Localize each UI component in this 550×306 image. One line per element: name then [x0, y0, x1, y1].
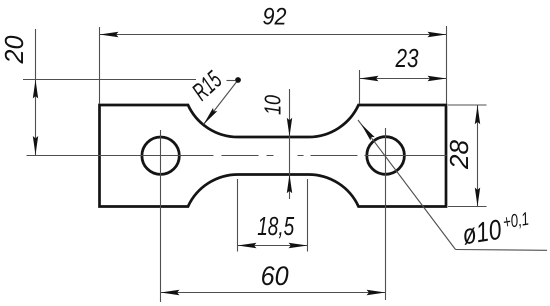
dim 18,5: dimension line — [238, 245, 308, 247]
right hole vertical centerline — [385, 128, 387, 300]
dim 92: arrow left — [100, 32, 119, 37]
svg-text:60: 60 — [261, 261, 289, 291]
svg-text:28: 28 — [444, 139, 474, 170]
dim 28: extension line top right — [448, 104, 487, 106]
dim 92: arrow right — [428, 32, 447, 37]
dim 23: arrow right — [428, 76, 447, 81]
svg-text:ø10: ø10 — [460, 214, 504, 251]
svg-text:92: 92 — [263, 4, 287, 31]
dim 23: arrow left — [360, 76, 379, 81]
horizontal centerline (dash-dot axis through part and holes) — [27, 155, 447, 157]
svg-text:10: 10 — [260, 95, 286, 115]
dim 10 (neck width): upper dimension line — [289, 89, 291, 199]
d10 leader: diagonal through right hole — [358, 120, 456, 250]
dim 20: upper extension line stub near arc-center dot — [227, 80, 236, 82]
dim 92: extension line left — [99, 27, 101, 104]
dim 18,5: arrow left — [238, 243, 257, 248]
left hole vertical centerline — [160, 130, 162, 302]
dim 28: extension line bottom right — [448, 206, 487, 208]
dim 23: extension line left — [359, 70, 361, 104]
dim 92: dimension line — [100, 34, 447, 36]
svg-text:20: 20 — [0, 35, 29, 64]
svg-text:23: 23 — [395, 43, 419, 73]
dim 18,5: extension line right — [307, 179, 309, 252]
d10 +0,1 label — [460, 208, 532, 251]
dim 60: arrow left — [161, 290, 180, 295]
dim 28: arrow down — [475, 188, 480, 207]
dim 20: arrow down — [33, 136, 38, 155]
dim 20: dimension line (vertical, left side) — [35, 29, 37, 155]
svg-text:R15: R15 — [187, 66, 227, 106]
hole right (d10) — [367, 137, 405, 175]
dim 92/23: extension line right — [446, 26, 448, 104]
dim 28: arrow up — [475, 105, 480, 124]
dim 60: dimension line (between hole centers) — [161, 292, 386, 294]
d10 leader: horizontal shelf under label — [456, 249, 548, 252]
dim 28: dimension line — [477, 105, 479, 206]
d10 leader arrowhead — [359, 122, 375, 140]
dim 60: arrow right — [367, 290, 386, 295]
part outline (dog-bone specimen, 92 x 28, R15 fillets) — [100, 105, 447, 207]
dim 10: arrow up at neck bottom — [287, 174, 292, 193]
R15 arc center dot — [235, 77, 241, 83]
dim 18,5: arrow right — [289, 243, 308, 248]
hole left (d10) — [142, 137, 179, 174]
svg-text:+0,1: +0,1 — [501, 208, 530, 233]
svg-text:18,5: 18,5 — [257, 213, 295, 241]
dim 18,5: extension line left — [237, 179, 239, 252]
R15 leader line from arc center dot to fillet — [204, 80, 239, 125]
dim 23: dimension line — [360, 78, 447, 80]
dim 20: arrow up — [33, 80, 38, 99]
dim 10: arrow down at neck top — [287, 118, 292, 137]
R15 leader arrowhead on fillet — [201, 108, 217, 126]
dim 20: upper extension line (through R15 arc center height) — [23, 79, 196, 81]
